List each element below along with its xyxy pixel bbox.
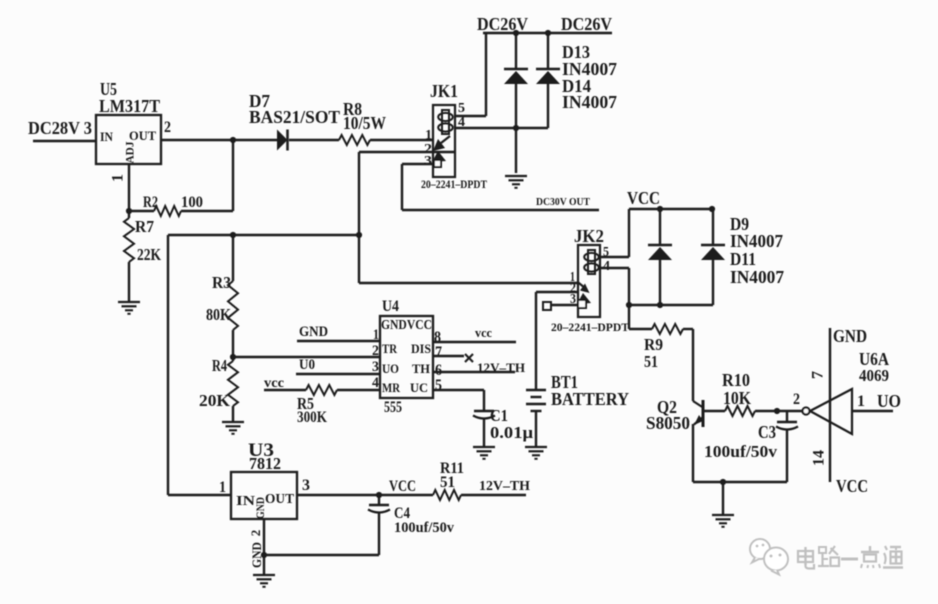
svg-text:IN4007: IN4007 [730, 267, 784, 287]
svg-text:IN: IN [100, 129, 114, 144]
svg-text:ADJ: ADJ [122, 142, 136, 164]
svg-text:10/5W: 10/5W [343, 113, 386, 133]
svg-text:VCC: VCC [627, 188, 660, 208]
svg-text:UO: UO [382, 361, 399, 376]
svg-text:4: 4 [603, 259, 610, 274]
svg-text:100uf/50v: 100uf/50v [394, 520, 454, 536]
svg-text:BAS21/SOT: BAS21/SOT [249, 107, 340, 127]
svg-text:4: 4 [372, 375, 379, 391]
svg-text:TH: TH [412, 361, 430, 376]
svg-text:4069: 4069 [859, 366, 889, 385]
svg-text:C3: C3 [758, 422, 776, 442]
svg-text:U0: U0 [299, 357, 315, 373]
svg-text:3: 3 [570, 292, 576, 307]
svg-text:GND: GND [833, 326, 867, 346]
svg-text:1: 1 [425, 128, 432, 143]
svg-text:DIS: DIS [411, 341, 431, 356]
svg-text:DC28V 3: DC28V 3 [28, 118, 92, 138]
svg-text:300K: 300K [297, 409, 327, 426]
svg-text:MR: MR [382, 380, 400, 395]
svg-text:DC26V: DC26V [561, 14, 612, 34]
svg-text:7812: 7812 [249, 454, 281, 473]
svg-text:10K: 10K [723, 388, 751, 408]
svg-text:OUT: OUT [265, 492, 295, 507]
svg-text:5: 5 [435, 377, 442, 394]
svg-text:BATTERY: BATTERY [551, 389, 629, 409]
svg-text:100uf/50v: 100uf/50v [704, 442, 778, 461]
svg-text:5: 5 [458, 101, 465, 116]
svg-text:14: 14 [811, 450, 828, 466]
svg-text:JK1: JK1 [430, 81, 458, 101]
svg-text:GND: GND [299, 324, 328, 340]
svg-text:GND: GND [249, 542, 264, 568]
svg-text:R3: R3 [212, 273, 231, 292]
svg-text:TR: TR [382, 341, 398, 356]
svg-text:GND: GND [253, 497, 267, 519]
svg-text:0.01μ: 0.01μ [490, 423, 533, 442]
svg-text:100: 100 [181, 194, 203, 211]
svg-text:GNDVCC: GNDVCC [381, 318, 432, 333]
svg-text:20–2241–DPDT: 20–2241–DPDT [421, 177, 487, 191]
svg-text:4: 4 [458, 115, 465, 130]
svg-text:IN4007: IN4007 [562, 92, 617, 112]
svg-text:555: 555 [384, 399, 402, 416]
svg-text:12V–TH: 12V–TH [477, 360, 525, 375]
svg-text:U4: U4 [382, 298, 399, 315]
svg-text:vcc: vcc [264, 376, 284, 391]
svg-text:2: 2 [248, 530, 263, 537]
svg-text:5: 5 [603, 245, 609, 260]
svg-text:51: 51 [440, 474, 455, 491]
svg-text:2: 2 [372, 343, 379, 359]
svg-text:2: 2 [793, 391, 800, 408]
svg-text:3: 3 [302, 477, 310, 494]
svg-text:UC: UC [410, 380, 428, 395]
svg-text:R10: R10 [722, 370, 750, 390]
svg-text:VCC: VCC [389, 478, 416, 495]
svg-text:JK2: JK2 [574, 226, 604, 246]
svg-text:D11: D11 [730, 249, 756, 269]
svg-text:R7: R7 [135, 217, 154, 236]
svg-text:R4: R4 [212, 356, 227, 375]
svg-text:UO: UO [877, 391, 901, 411]
svg-text:VCC: VCC [836, 476, 868, 496]
svg-text:DC30V OUT: DC30V OUT [536, 197, 590, 208]
svg-text:12V–TH: 12V–TH [479, 479, 530, 494]
svg-text:80K: 80K [206, 305, 232, 324]
svg-text:3: 3 [424, 154, 432, 169]
svg-text:1: 1 [373, 327, 379, 343]
svg-text:7: 7 [810, 371, 827, 379]
svg-text:20–2241–DPDT: 20–2241–DPDT [551, 320, 629, 334]
svg-text:IN4007: IN4007 [730, 231, 783, 251]
svg-text:OUT: OUT [129, 128, 156, 143]
svg-text:1: 1 [110, 174, 127, 182]
svg-text:1: 1 [857, 393, 865, 410]
svg-text:3: 3 [372, 359, 379, 375]
svg-text:20K: 20K [199, 391, 231, 410]
svg-text:1: 1 [219, 479, 226, 496]
svg-text:22K: 22K [137, 245, 162, 264]
svg-text:2: 2 [164, 119, 171, 136]
svg-text:LM317T: LM317T [99, 96, 160, 116]
svg-text:R2: R2 [143, 194, 158, 211]
svg-text:7: 7 [435, 344, 442, 361]
svg-text:S8050: S8050 [646, 413, 690, 433]
svg-text:DC26V: DC26V [477, 14, 528, 34]
svg-text:51: 51 [644, 352, 658, 371]
svg-text:vcc: vcc [475, 325, 492, 340]
